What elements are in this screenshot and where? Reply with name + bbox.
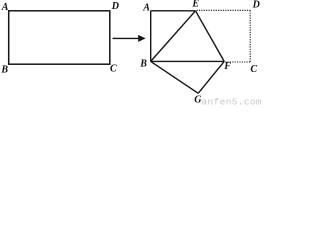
svg-text:C: C <box>110 64 117 75</box>
svg-text:B: B <box>0 65 8 76</box>
svg-text:E: E <box>191 0 199 10</box>
dotted F-C <box>225 61 250 63</box>
wire B2-G <box>151 61 199 93</box>
dotted E-D <box>197 9 251 11</box>
rectangle ABCD <box>9 11 110 64</box>
arrow <box>113 37 140 39</box>
svg-text:C: C <box>250 64 257 75</box>
svg-text:D: D <box>252 0 260 10</box>
svg-text:B: B <box>139 58 147 69</box>
wire G-F <box>198 61 224 93</box>
svg-text:A: A <box>1 2 9 13</box>
dotted D-C vertical <box>249 10 251 62</box>
svg-text:anfen5.com: anfen5.com <box>202 97 263 106</box>
wire A2-E top edge <box>151 10 196 12</box>
wire A2-B2 left edge <box>150 11 152 62</box>
wire B2-E <box>151 11 196 62</box>
svg-text:F: F <box>223 61 231 72</box>
wire E-F <box>196 11 225 62</box>
svg-text:A: A <box>142 3 150 14</box>
wire B2-F <box>151 60 225 62</box>
svg-text:D: D <box>111 1 119 12</box>
